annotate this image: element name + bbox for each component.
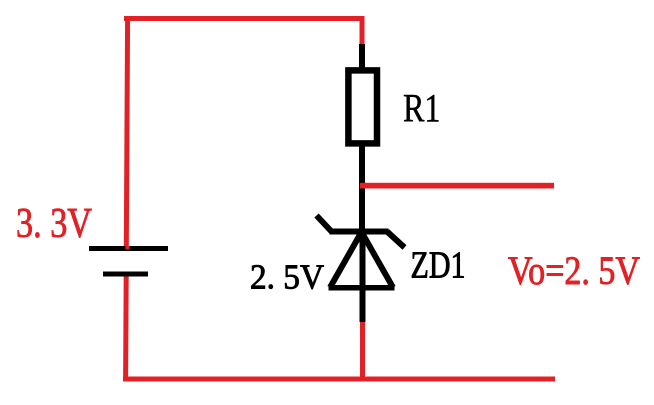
- wire: middle horizontal output wire (node Vo): [360, 183, 554, 189]
- svg-text:3. 3V: 3. 3V: [16, 200, 92, 247]
- wire: red overlap of + wire on battery plate: [126, 246, 130, 250]
- resistor R1: [348, 70, 377, 143]
- node Vo junction: [360, 183, 366, 189]
- battery negative plate (short bar): [103, 272, 148, 277]
- wire: left vertical from battery - terminal down to bottom wire: [123, 274, 129, 382]
- wire: bottom horizontal return wire: [123, 377, 555, 382]
- svg-text:2. 5V: 2. 5V: [250, 258, 324, 297]
- wire: red segment below zener anode to bottom wire: [360, 321, 365, 381]
- svg-text:R1: R1: [403, 86, 441, 131]
- zener ZD1 left bent end: [317, 216, 332, 232]
- wire: left vertical from top wire down to battery + terminal: [126, 16, 127, 248]
- wire: black lead from R1 bottom through node Vo to zener cathode: [359, 143, 365, 234]
- wire: black lead from zener anode downward: [360, 232, 366, 322]
- zener ZD1 right bent end: [387, 232, 405, 248]
- svg-text:ZD1: ZD1: [411, 245, 466, 287]
- battery positive plate (long bar): [89, 246, 168, 251]
- wire: black lead from red drop into R1 top: [359, 44, 365, 71]
- svg-text:Vo=2. 5V: Vo=2. 5V: [508, 248, 640, 293]
- zener diode ZD1 cathode bar: [330, 229, 389, 235]
- wire: red drop from top wire toward R1: [360, 16, 365, 46]
- zener ZD1 triangle base (anode): [329, 285, 395, 291]
- wire: top horizontal from battery + to R1 branch: [124, 16, 365, 21]
- zener ZD1 triangle right side: [362, 232, 394, 288]
- zener ZD1 triangle left side: [330, 232, 362, 288]
